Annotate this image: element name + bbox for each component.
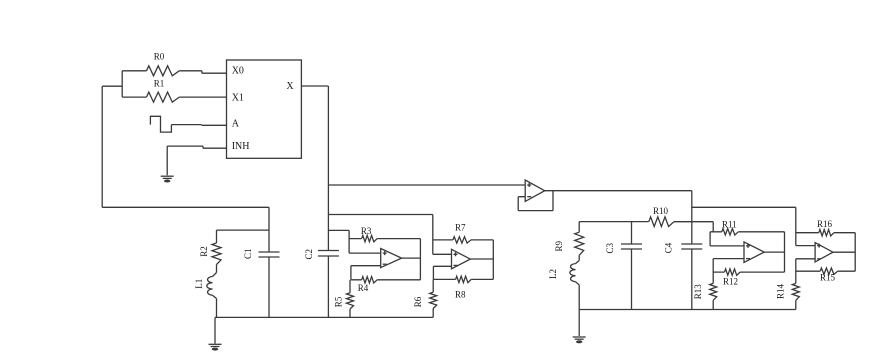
svg-text:R0: R0 (154, 52, 165, 62)
resistor R13 (693, 283, 717, 300)
wire U5 -input (713, 259, 744, 284)
svg-text:A: A (232, 119, 240, 130)
wire R6 top lead (432, 279, 434, 292)
svg-text:X: X (286, 81, 294, 92)
resistor R4 (358, 277, 377, 293)
wire R4 loop (351, 279, 421, 281)
resistor R7 (453, 223, 471, 244)
resistor R2 (199, 243, 221, 265)
wire to op-amp U6 stage (692, 207, 796, 245)
wire R11 loop (710, 232, 784, 272)
resistor R12 (723, 269, 740, 286)
capacitor C3 (605, 243, 642, 254)
pin label A (232, 119, 240, 130)
svg-text:R13: R13 (693, 284, 703, 300)
wire R13 bottom lead (712, 300, 714, 309)
svg-text:R7: R7 (455, 223, 466, 233)
wire R0 to X0 pin (179, 71, 226, 73)
wire X output (301, 85, 328, 87)
svg-text:INH: INH (232, 141, 250, 152)
wire R1 to X1 pin (179, 96, 226, 98)
wire R14 bottom lead (795, 300, 797, 309)
svg-text:X0: X0 (232, 66, 244, 77)
svg-text:R10: R10 (653, 206, 669, 216)
inductor L2 (548, 264, 575, 282)
wire R10 right / stub (674, 222, 713, 232)
resistor R15 (820, 268, 838, 283)
wire R8 loop (433, 278, 493, 280)
pin label INH (232, 141, 250, 152)
wire R9 top lead (578, 222, 580, 233)
inductor L1 (194, 277, 212, 296)
svg-text:C2: C2 (304, 249, 314, 260)
pin label X1 (232, 93, 244, 104)
resistor R5 (334, 293, 354, 309)
ground INH (161, 176, 174, 182)
wire pulse to A pin (171, 124, 226, 127)
op-amp U6 (815, 243, 833, 262)
svg-text:X1: X1 (232, 93, 244, 104)
wire C4 bottom lead (691, 249, 693, 310)
wire X to buffer (328, 184, 525, 186)
resistor R9 (554, 232, 584, 255)
svg-text:R9: R9 (554, 240, 564, 251)
pulse source V1 (150, 116, 171, 132)
wire R6 bottom lead (432, 309, 434, 318)
resistor R11 (722, 220, 739, 236)
resistor R0 (147, 52, 180, 76)
wire to tank (102, 207, 269, 252)
wire right tank top (579, 221, 649, 223)
wire R2 top lead (216, 230, 218, 243)
svg-text:C3: C3 (605, 243, 615, 254)
wire stub to op-amp U2 loop (328, 230, 349, 253)
wire X to op-amp U3 stage (328, 215, 432, 255)
wire C1 bottom lead (268, 257, 270, 317)
wire input bracket (102, 71, 122, 97)
wire U6 output (833, 251, 855, 253)
wire R12 loop (713, 271, 784, 273)
wire R3 loop (349, 239, 420, 280)
svg-text:C1: C1 (243, 248, 253, 259)
wire U4 output (545, 190, 692, 192)
wire R1 left (122, 96, 146, 98)
resistor R14 (776, 283, 800, 300)
wire right ground stub (578, 310, 580, 337)
analog mux U1 box (227, 60, 302, 158)
svg-text:R6: R6 (413, 296, 423, 307)
wire right ground rail (579, 309, 796, 311)
wire L2 bottom lead (576, 282, 580, 310)
wire C2 bottom lead (327, 256, 329, 317)
ground left tank (209, 344, 222, 350)
wire U2 output (402, 257, 421, 259)
wire R0 left (122, 70, 146, 72)
svg-text:R5: R5 (334, 296, 344, 307)
wire C3 bottom lead (631, 249, 633, 310)
wire tank top (217, 229, 270, 231)
op-amp U5 (744, 242, 764, 263)
wire U3 -input (433, 266, 451, 279)
svg-text:L2: L2 (548, 269, 558, 279)
wire C3 top lead (631, 222, 633, 244)
capacitor C1 (243, 248, 280, 259)
svg-text:R4: R4 (358, 283, 369, 293)
svg-text:R2: R2 (199, 246, 209, 257)
wire U5 +input (710, 232, 744, 246)
wire left ground rail (215, 316, 433, 318)
pin label X (output) (286, 81, 294, 92)
wire L1 bottom lead (213, 295, 217, 317)
wire INH to ground (167, 146, 226, 175)
wire U5 output (764, 251, 784, 253)
pin label X0 (232, 66, 244, 77)
op-amp U4 buffer (525, 180, 545, 201)
svg-text:R1: R1 (154, 78, 165, 88)
wire R15 loop (796, 270, 855, 272)
resistor R16 (817, 219, 834, 236)
wire R7 loop (433, 240, 494, 280)
capacitor C4 (664, 242, 703, 253)
resistor R8 (455, 276, 471, 299)
svg-text:R11: R11 (722, 220, 737, 230)
wire R2 to L1 (213, 265, 217, 277)
wire R5 bottom lead (349, 309, 351, 317)
svg-text:R3: R3 (361, 226, 372, 236)
wire buffer bus vertical (691, 191, 693, 244)
resistor R6 (413, 292, 437, 308)
wire R5 top lead (349, 280, 351, 293)
wire left ground stub (214, 317, 216, 343)
wire U6 -input (796, 259, 815, 284)
wire R16 loop (796, 233, 855, 272)
svg-text:R14: R14 (776, 284, 786, 300)
op-amp U2 (381, 249, 402, 268)
capacitor C2 (304, 249, 339, 260)
wire U2 -input (351, 266, 381, 280)
wire left feedback vertical (101, 86, 103, 207)
svg-text:R15: R15 (820, 273, 836, 283)
wire U4 feedback (518, 191, 553, 211)
ground right tank (573, 337, 586, 343)
svg-text:L1: L1 (194, 279, 204, 289)
wire U3 output (470, 258, 493, 260)
wire U6 +input (796, 245, 815, 247)
svg-text:R16: R16 (817, 219, 833, 229)
resistor R10 (649, 206, 674, 227)
wire R9 to L2 (576, 255, 580, 263)
resistor R3 (361, 226, 377, 242)
wire U3 +input (433, 253, 452, 255)
svg-text:R12: R12 (723, 276, 738, 286)
resistor R1 (147, 78, 180, 102)
svg-text:C4: C4 (664, 242, 674, 253)
op-amp U3 (452, 249, 471, 268)
wire X vertical bus (327, 86, 329, 251)
wire U2 +input (349, 252, 381, 254)
svg-text:R8: R8 (455, 289, 466, 299)
